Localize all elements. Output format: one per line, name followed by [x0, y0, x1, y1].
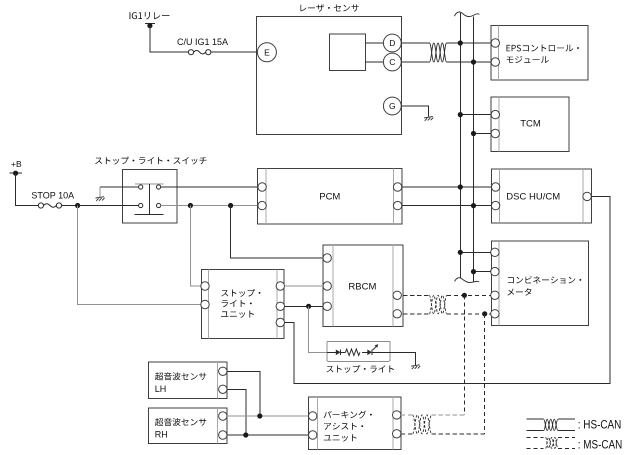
fuse C/U IG1 15A label	[177, 37, 228, 47]
wire lamp to ground	[390, 352, 415, 365]
resistor R1	[346, 349, 368, 355]
svg-text:: HS-CAN: : HS-CAN	[578, 420, 622, 432]
node A junction	[75, 203, 80, 208]
wire PCM pin R1 to DSC pin 1	[402, 186, 491, 188]
ground laser sensor	[424, 117, 433, 121]
node D junction	[462, 293, 467, 298]
wire junction F to stop light lamp	[309, 306, 327, 352]
wire inner module to pin D	[366, 42, 384, 44]
stop light switch label	[95, 157, 206, 165]
junction bus PCM 1	[458, 184, 463, 189]
bus break bottom	[455, 278, 480, 283]
wire unit pin R1 to RBCM pin L2	[285, 285, 323, 287]
switch terminal 2	[157, 185, 161, 189]
meter pin 4	[491, 310, 499, 318]
PCM pin L1	[258, 183, 266, 191]
RBCM pin L1	[323, 254, 331, 262]
ultrasonic RH label	[155, 418, 207, 440]
pin C	[383, 53, 401, 71]
RBCM pin L3	[323, 302, 331, 310]
wire parking pin R1 to twisted pair	[401, 414, 413, 416]
legend MS-CAN text	[578, 440, 623, 452]
node H junction	[243, 432, 248, 437]
svg-text:C: C	[389, 57, 395, 67]
svg-text:C/U IG1 15A: C/U IG1 15A	[177, 37, 228, 47]
wire switch terminal 2 to PCM pin 1	[161, 186, 258, 188]
DSC pin R	[583, 192, 591, 200]
pin E	[257, 43, 276, 62]
wire bus to meter pin 1	[460, 251, 490, 253]
parking assist unit box	[309, 397, 401, 450]
junction bus PCM 2	[471, 203, 476, 208]
svg-text:G: G	[389, 101, 396, 111]
wire RH pin 1 to parking assist	[227, 415, 308, 417]
stop light unit pin R1	[276, 282, 284, 290]
node IG1 relay tap	[145, 23, 155, 28]
TCM label	[520, 119, 541, 130]
stop light unit pin L1	[201, 282, 209, 290]
svg-text:RBCM: RBCM	[348, 282, 376, 293]
wire switch to ground	[122, 186, 138, 188]
legend MS-CAN wires	[526, 437, 575, 448]
twisted pair MS-CAN meter	[429, 295, 447, 314]
svg-text:STOP 10A: STOP 10A	[31, 191, 74, 201]
bus HS-CAN high line	[459, 13, 461, 278]
junction bus TCM 1	[458, 112, 463, 117]
EPS pin 2	[491, 58, 499, 66]
legend MS-CAN twisted pair	[546, 437, 558, 448]
RBCM box	[323, 245, 403, 327]
bus break top	[454, 12, 479, 17]
wire unit pin R2 to RBCM pin L3	[285, 305, 323, 307]
ultrasonic RH pin 1	[219, 412, 227, 420]
ultrasonic sensor RH box	[149, 408, 227, 444]
parking assist label	[324, 411, 372, 442]
PCM pin R2	[393, 201, 401, 209]
stop light unit pin R2	[276, 302, 284, 310]
parking assist pin L2	[309, 431, 317, 439]
wire pin G to ground	[401, 106, 428, 117]
wire bus to TCM pin 1	[460, 114, 491, 116]
laser sensor label	[300, 4, 358, 12]
DSC pin 2	[491, 201, 499, 209]
wire bus to TCM pin 2	[474, 133, 492, 135]
meter pin 2	[491, 267, 499, 275]
stop light switch stem	[149, 184, 151, 214]
RBCM pin L2	[323, 282, 331, 290]
wire twisted pair to EPS pin 2	[447, 61, 492, 63]
fuse STOP 10A label	[31, 191, 74, 201]
PCM pin R1	[393, 183, 401, 191]
wire switch terminal 1 lead	[122, 186, 138, 188]
diode D2 arrow	[373, 344, 379, 350]
DSC HU/CM box	[492, 169, 592, 223]
switch terminal 4	[157, 203, 161, 207]
wire twisted pair to MS-CAN drop right	[432, 433, 485, 435]
svg-text:PCM: PCM	[319, 191, 340, 202]
legend HS-CAN wires	[526, 419, 575, 431]
wire pin D to twisted pair	[401, 42, 429, 44]
wire fuse to laser sensor pin E	[211, 51, 258, 53]
wire twisted pair to meter pin 4	[447, 313, 491, 315]
wire LH pin 2 down	[227, 389, 246, 435]
ultrasonic LH pin 1	[219, 367, 227, 375]
stop light lamp label	[327, 365, 394, 373]
laser sensor U1 box	[257, 16, 402, 134]
stop light unit pin L2	[201, 300, 209, 308]
junction bus meter 1	[458, 250, 463, 255]
node IG1 relay label	[130, 12, 170, 19]
wire fuse STOP to switch	[62, 205, 139, 207]
node G junction	[257, 413, 262, 418]
laser sensor inner module	[330, 34, 366, 71]
wire RH pin 2 to parking assist	[227, 434, 308, 436]
wire junction A down to stop light unit	[78, 206, 201, 305]
twisted pair MS-CAN parking	[413, 415, 432, 434]
meter pin 3	[491, 291, 499, 299]
svg-text:RH: RH	[155, 430, 168, 440]
wire PCM pin R2 to DSC pin 2	[402, 205, 491, 207]
switch terminal 1	[139, 185, 143, 189]
ultrasonic LH pin 2	[219, 385, 227, 393]
combination meter label	[507, 276, 581, 296]
legend HS-CAN text	[578, 420, 622, 432]
parking assist pin R1	[393, 411, 401, 419]
wire junction C down to RBCM pin 1	[231, 206, 323, 259]
stop light unit label	[221, 289, 260, 318]
PCM pin L2	[258, 201, 266, 209]
svg-text:LH: LH	[155, 384, 167, 394]
junction bus D wire	[458, 40, 463, 45]
pin D	[383, 34, 401, 52]
wire pin C to twisted pair	[401, 61, 429, 63]
wire inner module to pin C	[366, 61, 384, 63]
ground stop light	[411, 365, 420, 369]
RBCM pin R2	[393, 310, 401, 318]
stop light lamp lead out	[372, 351, 390, 353]
parking assist pin L1	[309, 412, 317, 420]
junction bus C wire	[471, 59, 476, 64]
EPS control module box	[491, 25, 588, 80]
RBCM label	[348, 282, 376, 293]
switch terminal 3	[139, 203, 143, 207]
node E junction	[482, 311, 487, 316]
node +B label	[11, 159, 22, 169]
wire MS-CAN drop left	[463, 295, 465, 415]
node +B tap	[10, 171, 23, 176]
ultrasonic sensor LH box	[149, 362, 227, 398]
svg-text:: MS-CAN: : MS-CAN	[578, 440, 623, 452]
stop light lamp lead in	[327, 351, 336, 353]
ground stop light switch	[96, 197, 105, 201]
wire +B to fuse STOP	[16, 173, 39, 205]
PCM label	[319, 191, 340, 202]
combination meter box	[492, 241, 589, 326]
wire MS-CAN drop right	[484, 314, 486, 434]
RBCM pin R1	[393, 291, 401, 299]
EPS label	[507, 45, 579, 64]
wire junction B down to stop light unit	[190, 206, 200, 287]
svg-text:TCM: TCM	[520, 119, 541, 130]
node B junction	[188, 203, 193, 208]
pin G	[383, 97, 401, 115]
diode D1	[336, 350, 346, 356]
stop light switch box	[122, 169, 176, 223]
legend HS-CAN twisted pair	[544, 419, 558, 431]
wire parking pin R2 to twisted pair	[401, 433, 413, 435]
node C junction	[228, 203, 233, 208]
diode D2	[367, 350, 372, 356]
junction bus TCM 2	[471, 131, 476, 136]
EPS pin 1	[491, 39, 499, 47]
fuse C/U IG1 15A	[188, 50, 211, 55]
DSC pin 1	[491, 183, 499, 191]
svg-text:+B: +B	[11, 159, 22, 169]
parking assist pin R2	[393, 430, 401, 438]
wire twisted pair to meter pin 3	[447, 294, 491, 296]
wire IG1 relay to fuse	[150, 26, 189, 53]
TCM box	[491, 97, 569, 152]
stop light switch contact bar top	[135, 183, 164, 185]
TCM pin 1	[491, 110, 499, 118]
twisted pair HS-CAN laser	[430, 43, 447, 62]
ultrasonic LH label	[155, 372, 207, 394]
PCM box	[258, 169, 403, 225]
node F junction	[306, 304, 311, 309]
stop light lamp box	[327, 341, 390, 361]
svg-text:DSC HU/CM: DSC HU/CM	[506, 191, 560, 202]
stop light unit box	[201, 269, 284, 338]
wire twisted pair to EPS pin 1	[447, 42, 492, 44]
wire twisted pair to MS-CAN drop left	[432, 414, 465, 416]
svg-text:E: E	[264, 47, 270, 57]
junction bus meter 2	[471, 269, 476, 274]
TCM pin 2	[491, 129, 499, 137]
wire switch terminal 4 output	[161, 205, 258, 207]
wire RBCM pin R2 to twisted pair	[403, 313, 429, 315]
wire switch terminal1 to ground	[100, 187, 123, 197]
bus HS-CAN low line	[473, 17, 475, 283]
wire bus to meter pin 2	[474, 271, 491, 273]
wire RBCM pin R1 to twisted pair	[403, 294, 429, 296]
stop light unit pin R3	[276, 318, 284, 326]
wire switch terminal 3 lead	[122, 205, 138, 207]
meter pin 1	[491, 248, 499, 256]
fuse STOP 10A	[38, 203, 61, 208]
stop light switch contact bar bottom	[135, 213, 164, 215]
ultrasonic RH pin 2	[219, 431, 227, 439]
wire LH pin 1 down	[227, 371, 260, 416]
DSC label	[506, 191, 560, 202]
wire DSC pin R to stop light unit pin R3	[285, 196, 610, 383]
svg-text:D: D	[389, 38, 395, 48]
